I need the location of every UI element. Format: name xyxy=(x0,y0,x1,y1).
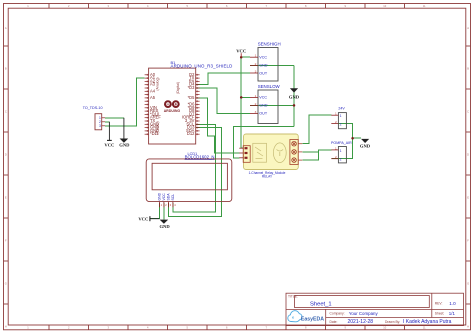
svg-text:F: F xyxy=(467,239,469,243)
junction GND/SENSLOW xyxy=(293,104,296,107)
wire LCD pin2 to GND flag xyxy=(163,203,165,220)
wire VCC vertical to SENSLOW VCC xyxy=(241,57,250,97)
svg-text:1: 1 xyxy=(27,4,29,8)
svg-text:2: 2 xyxy=(165,203,167,207)
junction VCC/SENSLOW xyxy=(240,96,243,99)
sensor SENSLOW xyxy=(250,84,281,123)
svg-text:G: G xyxy=(5,282,7,286)
svg-text:VCC: VCC xyxy=(138,217,148,222)
svg-text:3: 3 xyxy=(255,70,257,74)
svg-text:3: 3 xyxy=(170,203,172,207)
wire 24V pin2 to GND junction xyxy=(339,124,353,139)
svg-text:B: B xyxy=(5,67,7,71)
svg-text:(Analog): (Analog) xyxy=(156,77,160,90)
svg-text:10: 10 xyxy=(383,326,386,330)
GND net flag (TO_TDS) xyxy=(119,118,130,148)
svg-text:GND: GND xyxy=(158,192,162,200)
svg-text:2: 2 xyxy=(335,155,337,159)
svg-text:10: 10 xyxy=(383,4,386,8)
svg-text:GND: GND xyxy=(360,144,371,149)
svg-text:2: 2 xyxy=(335,120,337,124)
wire Arduino D5 to relay IN xyxy=(196,98,240,153)
svg-text:D: D xyxy=(5,153,7,157)
wire SENSHIGH GND to GND net vertical xyxy=(250,64,294,66)
svg-text:(Power): (Power) xyxy=(156,121,160,133)
svg-text:A: A xyxy=(467,26,469,30)
svg-text:VCC: VCC xyxy=(104,143,114,148)
VCC net flag (TO_TDS) xyxy=(104,122,114,148)
svg-text:ARDUINO: ARDUINO xyxy=(164,109,181,113)
svg-text:1: 1 xyxy=(335,112,337,116)
svg-text:3: 3 xyxy=(99,124,101,128)
svg-text:4: 4 xyxy=(147,326,149,330)
svg-text:TITLE:: TITLE: xyxy=(288,295,298,299)
svg-text:VCC: VCC xyxy=(236,49,246,54)
svg-text:E: E xyxy=(5,196,7,200)
svg-text:SENSLOW: SENSLOW xyxy=(258,84,281,89)
wire VCC vertical to relay VCC pin xyxy=(241,97,243,148)
svg-text:9: 9 xyxy=(344,326,346,330)
svg-text:1.0: 1.0 xyxy=(449,301,456,306)
svg-text:6: 6 xyxy=(226,4,228,8)
svg-text:D: D xyxy=(467,153,469,157)
svg-text:Sheet:: Sheet: xyxy=(435,312,445,316)
relay module RELAY xyxy=(239,134,302,179)
wire TO_TDS pin3 to Arduino A1 xyxy=(105,78,145,126)
wire TO_TDS pin1 to GND flag xyxy=(105,117,124,119)
svg-text:OUT: OUT xyxy=(259,112,268,116)
svg-text:EasyEDA: EasyEDA xyxy=(301,317,324,323)
svg-text:2: 2 xyxy=(255,102,257,106)
connector TO_TDS-10 xyxy=(83,106,105,130)
wire relay NC terminal up to POMPA_AIR pin1 xyxy=(302,150,331,160)
connector POMPA_AIR xyxy=(331,141,352,163)
svg-text:GND: GND xyxy=(159,224,170,229)
svg-text:1: 1 xyxy=(255,54,257,58)
svg-text:D12: D12 xyxy=(187,131,195,136)
svg-text:5: 5 xyxy=(186,326,188,330)
svg-text:7: 7 xyxy=(265,326,267,330)
svg-text:8: 8 xyxy=(305,326,307,330)
GND net flag (LCD) xyxy=(159,220,170,230)
svg-text:OUT: OUT xyxy=(259,71,268,75)
svg-text:SENSHIGH: SENSHIGH xyxy=(258,42,281,47)
wire GND net to relay GND pin xyxy=(234,126,294,158)
svg-text:POMPA_AIR: POMPA_AIR xyxy=(331,141,352,145)
svg-text:Drawn By:: Drawn By: xyxy=(385,320,400,324)
svg-text:2: 2 xyxy=(68,326,70,330)
svg-text:1: 1 xyxy=(340,149,342,153)
svg-text:*D3: *D3 xyxy=(188,85,196,90)
wire Arduino D4 to SENSHIGH OUT xyxy=(196,73,250,85)
svg-text:BOLCD1602_N: BOLCD1602_N xyxy=(185,154,215,159)
wire Arduino SDA to LCD pin3 xyxy=(168,128,221,217)
wire GND net to SENSLOW GND xyxy=(250,104,294,106)
svg-text:G: G xyxy=(467,282,469,286)
svg-text:4: 4 xyxy=(147,4,149,8)
svg-text:1: 1 xyxy=(255,94,257,98)
svg-text:11: 11 xyxy=(423,326,426,330)
svg-text:GND: GND xyxy=(259,64,268,68)
svg-text:8: 8 xyxy=(305,4,307,8)
svg-text:H: H xyxy=(5,325,7,329)
wire GND net vertical xyxy=(293,65,295,126)
svg-text:VCC: VCC xyxy=(259,96,267,100)
svg-text:B: B xyxy=(467,67,469,71)
svg-text:I Kadek Adyana Putra: I Kadek Adyana Putra xyxy=(403,319,452,325)
wire GND junction to POMPA_AIR pin2 xyxy=(331,138,352,159)
svg-text:F: F xyxy=(5,239,7,243)
sensor SENSHIGH xyxy=(250,42,281,81)
svg-text:4: 4 xyxy=(174,203,176,207)
svg-text:C: C xyxy=(467,110,469,114)
wire TO_TDS pin2 to VCC flag xyxy=(105,121,109,123)
svg-text:TO_TDS-10: TO_TDS-10 xyxy=(83,106,103,110)
svg-text:1: 1 xyxy=(27,326,29,330)
svg-text:Company:: Company: xyxy=(330,312,345,316)
svg-text:A: A xyxy=(5,26,7,30)
svg-text:5: 5 xyxy=(186,4,188,8)
svg-text:1: 1 xyxy=(335,146,337,150)
svg-text:2: 2 xyxy=(340,123,342,127)
svg-text:*D5: *D5 xyxy=(188,95,196,100)
svg-text:VCC: VCC xyxy=(259,56,267,60)
GND net flag (pump supply) xyxy=(360,139,371,149)
svg-text:SCL: SCL xyxy=(171,194,175,201)
svg-text:E: E xyxy=(467,196,469,200)
svg-text:7: 7 xyxy=(265,4,267,8)
svg-text:3: 3 xyxy=(107,326,109,330)
svg-text:(Digital): (Digital) xyxy=(176,82,180,94)
svg-text:C: C xyxy=(5,110,7,114)
svg-text:ARDUINO_UNO_R3_SHIELD: ARDUINO_UNO_R3_SHIELD xyxy=(171,64,233,69)
svg-text:9: 9 xyxy=(344,4,346,8)
svg-text:2: 2 xyxy=(255,62,257,66)
svg-text:REV:: REV: xyxy=(435,302,443,306)
svg-text:SDA: SDA xyxy=(167,193,171,201)
VCC net flag (sensors) xyxy=(236,49,246,58)
wire GND junction to GND flag xyxy=(353,137,362,139)
svg-text:2021-12-28: 2021-12-28 xyxy=(348,319,374,325)
wire LCD pin1 to VCC flag xyxy=(150,203,159,219)
junction GND/pump xyxy=(351,137,354,140)
svg-text:11: 11 xyxy=(423,4,426,8)
svg-text:GND: GND xyxy=(119,143,130,148)
wire relay COM terminal toward pump xyxy=(302,151,318,153)
svg-text:GND: GND xyxy=(259,104,268,108)
wire VCC net to SENSHIGH VCC xyxy=(241,56,250,58)
svg-text:1/1: 1/1 xyxy=(449,311,456,316)
display LCD1 BOLCD1602_N xyxy=(146,152,232,207)
svg-text:H: H xyxy=(467,325,469,329)
svg-text:Sheet_1: Sheet_1 xyxy=(310,302,332,308)
connector 24V xyxy=(331,107,346,129)
svg-text:RELAY: RELAY xyxy=(262,175,273,179)
svg-text:2: 2 xyxy=(340,158,342,162)
svg-text:Your Company: Your Company xyxy=(349,311,379,316)
svg-text:6: 6 xyxy=(226,326,228,330)
svg-text:Date:: Date: xyxy=(330,320,338,324)
arduino shield B1 xyxy=(145,60,233,144)
svg-text:1: 1 xyxy=(161,203,163,207)
svg-text:24V: 24V xyxy=(338,107,345,111)
svg-text:3: 3 xyxy=(255,110,257,114)
EasyEDA logo xyxy=(288,311,324,323)
wire Arduino SCL to LCD pin4 xyxy=(173,124,216,212)
GND net flag (sensors) xyxy=(289,88,300,99)
VCC net flag (LCD) xyxy=(138,216,159,221)
svg-text:3: 3 xyxy=(107,4,109,8)
svg-text:GND: GND xyxy=(289,94,300,99)
title block xyxy=(286,293,464,325)
svg-text:1: 1 xyxy=(340,114,342,118)
svg-text:A5: A5 xyxy=(150,95,156,100)
svg-text:VCC: VCC xyxy=(162,193,166,201)
junction VCC/SENSHIGH xyxy=(240,56,243,59)
wire relay NO terminal to 24V pin1 xyxy=(302,115,331,144)
wire Arduino D3 to SENSLOW OUT xyxy=(196,88,250,113)
svg-text:e: e xyxy=(292,315,295,320)
svg-text:2: 2 xyxy=(68,4,70,8)
